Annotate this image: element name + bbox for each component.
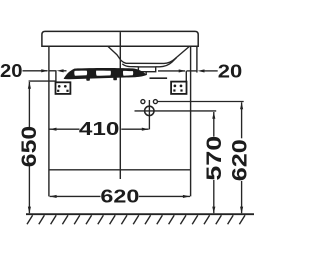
svg-text:650: 650: [18, 126, 41, 168]
svg-text:620: 620: [229, 139, 252, 181]
svg-text:20: 20: [218, 62, 243, 82]
svg-text:410: 410: [79, 119, 120, 139]
svg-text:620: 620: [100, 186, 139, 206]
svg-text:570: 570: [203, 136, 226, 181]
svg-text:20: 20: [0, 61, 22, 81]
